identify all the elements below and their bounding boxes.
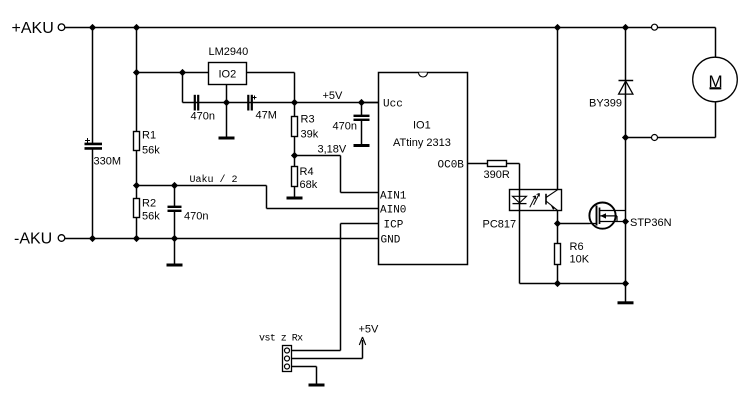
resistor R4 [292, 166, 318, 191]
svg-text:-AKU: -AKU [14, 231, 52, 248]
wire R2 to -AKU rail [136, 218, 138, 239]
svg-text:IO1: IO1 [413, 120, 431, 132]
svg-text:R4: R4 [300, 166, 314, 178]
wire R6 to bottom rail [557, 265, 559, 284]
diode BY399 [589, 81, 633, 110]
IC IO1 ATtiny 2313 [379, 73, 468, 265]
junction bottom rail at source [622, 280, 629, 287]
wire divider branch vertical (top) [136, 28, 138, 132]
svg-text:Uaku / 2: Uaku / 2 [190, 174, 238, 186]
wire IO2 output down to +5V rail [294, 73, 296, 117]
svg-text:R6: R6 [570, 241, 584, 253]
wire drain rail vertical [625, 28, 627, 284]
junction top rail at C330M [89, 24, 96, 31]
junction gate node [554, 220, 561, 227]
ground (decoupling cap) [354, 144, 370, 147]
wire motor top stub [715, 28, 717, 58]
svg-text:56k: 56k [142, 211, 160, 223]
wire R1 to R2 [136, 151, 138, 199]
motor M [693, 57, 738, 102]
wire opto collector to top rail [557, 28, 559, 190]
wire motor bottom [626, 137, 716, 139]
ground (connector) [309, 384, 325, 387]
wire OC0B pin [468, 163, 488, 165]
wire opto LED cathode down [519, 211, 521, 284]
wire C330M branch vertical [92, 28, 94, 144]
wire IO2 ground leg [226, 85, 228, 137]
svg-text:390R: 390R [484, 169, 510, 181]
capacitor 470n (Uaku filter) [168, 186, 209, 239]
wire R3 to R4 [294, 137, 296, 167]
junction Uaku/2 at C470n [171, 182, 178, 189]
wire connector middle pin to +5V [292, 340, 363, 359]
svg-text:vst z Rx: vst z Rx [259, 334, 303, 345]
wire IO2 output [247, 72, 295, 74]
junction -AKU rail at C330M [89, 235, 96, 242]
svg-text:470n: 470n [333, 121, 357, 133]
svg-text:470n: 470n [191, 111, 215, 123]
svg-text:+AKU: +AKU [12, 20, 54, 37]
svg-text:3,18V: 3,18V [318, 144, 347, 156]
svg-text:OC0B: OC0B [438, 160, 465, 172]
junction motor bottom node [622, 134, 629, 141]
svg-text:Ucc: Ucc [383, 99, 403, 111]
resistor R1 [134, 130, 161, 157]
resistor 390R [484, 161, 510, 182]
junction divider / IO2 input [133, 69, 140, 76]
wire -AKU rail [65, 238, 379, 240]
junction top rail at divider [133, 24, 140, 31]
node terminal (top, open) [652, 24, 658, 30]
wire 390R to opto LED [507, 164, 520, 190]
capacitor 470n (IC decoupling) [333, 103, 370, 145]
svg-text:56k: 56k [142, 145, 160, 157]
ground (R4) [287, 197, 303, 200]
junction -AKU rail at R2 [133, 235, 140, 242]
resistor R6 [555, 241, 590, 266]
svg-text:ATtiny 2313: ATtiny 2313 [393, 137, 451, 149]
transistor Q1 STP36N [589, 203, 671, 230]
svg-text:ICP: ICP [384, 220, 404, 232]
regulator IO2 [209, 63, 247, 85]
connector vst z Rx [283, 346, 292, 372]
junction top rail at diode [622, 24, 629, 31]
node terminal (bottom, open) [652, 135, 658, 141]
wire Ucc pin [362, 102, 379, 104]
wire input cap vertical [182, 73, 184, 103]
svg-text:47M: 47M [256, 110, 277, 122]
svg-text:39k: 39k [301, 129, 319, 141]
junction -AKU rail at 470n [171, 235, 178, 242]
capacitor 47M [248, 95, 277, 122]
junction bottom rail at R6 [554, 280, 561, 287]
wire motor bottom stub [715, 102, 717, 138]
svg-text:AIN1: AIN1 [380, 191, 407, 203]
junction Uaku/2 node [133, 182, 140, 189]
junction +5V rail at R3 [291, 99, 298, 106]
wire connector bottom pin to ground [292, 367, 317, 384]
capacitor 330M [85, 138, 122, 168]
wire IO2 input [137, 72, 209, 74]
wire ICP routing [292, 224, 379, 351]
ground (470n Uaku) [167, 264, 183, 267]
svg-text:+5V: +5V [323, 90, 344, 102]
svg-text:R1: R1 [142, 130, 156, 142]
resistor R2 [134, 198, 161, 223]
terminal -AKU [14, 231, 65, 248]
svg-text:68k: 68k [300, 179, 318, 191]
wire gate [558, 223, 590, 225]
svg-text:BY399: BY399 [589, 98, 622, 110]
junction 3,18V node [291, 152, 298, 159]
optocoupler PC817 [483, 190, 562, 231]
wire 3,18V to AIN1 [295, 156, 379, 193]
wire R4 to ground [294, 187, 296, 197]
resistor R3 [292, 114, 319, 141]
svg-text:10K: 10K [570, 254, 590, 266]
power arrow +5V [359, 324, 380, 346]
wire opto emitter down [557, 211, 559, 244]
svg-text:PC817: PC817 [483, 219, 517, 231]
wire cap row / +5V rail [183, 102, 379, 104]
svg-text:IO2: IO2 [219, 69, 237, 81]
wire top rail [65, 27, 716, 29]
wire 470n to ground [174, 239, 176, 264]
capacitor 470n (IO2 input) [191, 95, 215, 123]
junction IO2 ground node [223, 99, 230, 106]
wire source rail to ground [625, 284, 627, 302]
wire Uaku/2 to AIN0 [137, 186, 379, 209]
svg-text:+5V: +5V [359, 324, 380, 336]
svg-text:470n: 470n [184, 211, 208, 223]
svg-text:330M: 330M [94, 156, 122, 168]
wire bottom rail [520, 283, 626, 285]
junction top rail at opto [554, 24, 561, 31]
svg-text:LM2940: LM2940 [209, 46, 249, 58]
junction source node [622, 218, 629, 225]
ground (IO2 caps) [219, 137, 235, 140]
junction +5V rail at decoupling cap [358, 99, 365, 106]
svg-text:GND: GND [381, 235, 401, 247]
svg-text:AIN0: AIN0 [380, 205, 406, 217]
junction IO2 input cap branch [179, 69, 186, 76]
svg-text:R2: R2 [142, 198, 156, 210]
ground (MOSFET source) [618, 301, 634, 304]
svg-text:R3: R3 [301, 114, 315, 126]
terminal +AKU [12, 20, 65, 37]
svg-text:STP36N: STP36N [630, 217, 672, 229]
